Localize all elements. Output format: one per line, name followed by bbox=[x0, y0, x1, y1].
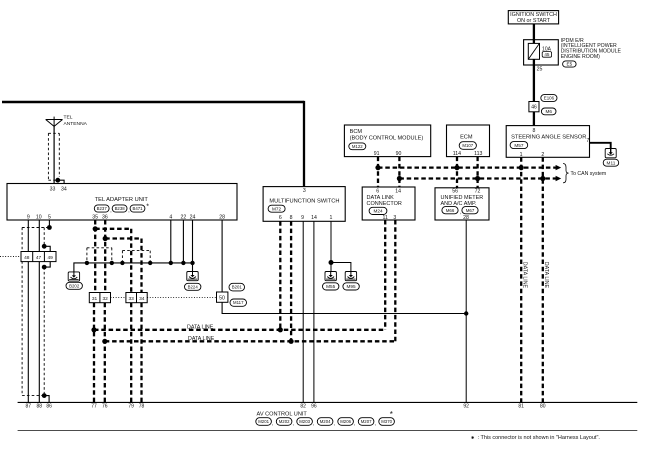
wire upper DATA LINE bbox=[94, 329, 385, 331]
wire connector 32 to AV pin 76 bbox=[104, 303, 106, 403]
svg-text:9: 9 bbox=[27, 215, 30, 221]
junction CAN dots bbox=[375, 165, 380, 170]
svg-text:B471: B471 bbox=[132, 206, 143, 211]
wire DLC pin 11 to upper data line bbox=[384, 220, 386, 330]
svg-text:14: 14 bbox=[395, 188, 401, 194]
svg-text:DATA LINE: DATA LINE bbox=[188, 336, 215, 342]
connector E5 bbox=[563, 61, 577, 67]
wire connector 50 to unified meter line bbox=[222, 302, 466, 313]
wire connector 46 to steering angle sensor pin 8 bbox=[533, 112, 535, 126]
svg-text:M24: M24 bbox=[373, 209, 383, 214]
connectors AV control unit bbox=[256, 418, 272, 426]
junction upper data line dots bbox=[91, 327, 96, 332]
node unified meter and A/C amp bbox=[435, 188, 489, 220]
junction dot below connector 49 bbox=[42, 265, 47, 270]
svg-text:,: , bbox=[334, 421, 335, 427]
svg-text:M122: M122 bbox=[352, 144, 363, 149]
shield around 33/34 wires bbox=[122, 250, 150, 252]
svg-text:25: 25 bbox=[537, 67, 543, 73]
junction lower data line dots bbox=[102, 339, 107, 344]
wire dotted lead to connector 48 bbox=[0, 256, 21, 258]
label to CAN system brace bbox=[563, 164, 569, 183]
svg-text:ANTENNA: ANTENNA bbox=[64, 121, 88, 127]
wire connector 34 to AV pin 78 bbox=[140, 303, 142, 403]
svg-text:M202: M202 bbox=[279, 419, 290, 424]
wire TEL pin 24 drop to ground bbox=[192, 220, 194, 272]
node BCM body control module bbox=[344, 125, 430, 157]
svg-text:,: , bbox=[460, 210, 461, 216]
wire fuse to connector 46 bbox=[533, 65, 535, 102]
svg-text:1: 1 bbox=[330, 215, 333, 221]
svg-text:79: 79 bbox=[128, 404, 134, 410]
node ECM bbox=[447, 125, 490, 157]
svg-text:DATA LINE: DATA LINE bbox=[187, 324, 214, 330]
junction pin 35 branch dot bbox=[93, 226, 98, 231]
svg-text:M370: M370 bbox=[381, 419, 392, 424]
svg-text:36: 36 bbox=[102, 215, 108, 221]
ground M55 bbox=[325, 272, 336, 281]
shield around antenna wire bbox=[47, 133, 49, 180]
svg-text:47: 47 bbox=[36, 255, 42, 261]
svg-text:11: 11 bbox=[383, 215, 388, 221]
svg-text:72: 72 bbox=[475, 188, 481, 194]
svg-text:B237: B237 bbox=[97, 206, 108, 211]
svg-text:4: 4 bbox=[169, 215, 172, 221]
wire TEL pin 4 drop to bus bbox=[170, 220, 172, 263]
node multifunction switch M72 bbox=[263, 187, 345, 222]
wire BCM pin 90 drop bbox=[398, 157, 400, 187]
wire connector 33 to AV pin 79 bbox=[130, 303, 132, 403]
wire ignition switch to fuse bbox=[533, 24, 535, 40]
svg-text:: This connector is not shown: : This connector is not shown in "Harnes… bbox=[478, 435, 601, 441]
ground B224 bbox=[187, 272, 198, 281]
wire TEL pin 22 drop to bus bbox=[182, 220, 184, 263]
node AV control unit line bbox=[18, 401, 638, 403]
svg-text:87: 87 bbox=[26, 404, 32, 410]
ground B202 bbox=[68, 272, 79, 281]
svg-text:M67: M67 bbox=[466, 208, 475, 213]
svg-text:MULTIFUNCTION SWITCH: MULTIFUNCTION SWITCH bbox=[269, 198, 339, 204]
junction dot 50-line tee bbox=[464, 311, 468, 315]
svg-text:80: 80 bbox=[540, 404, 546, 410]
svg-text:24: 24 bbox=[190, 215, 196, 221]
wire TEL pin 28 to connector 50 bbox=[221, 220, 223, 292]
svg-text:B201: B201 bbox=[232, 285, 243, 290]
separator line bottom bbox=[18, 429, 638, 431]
svg-text:78: 78 bbox=[139, 404, 145, 410]
wire pin 35 branch to connector 33 bbox=[95, 228, 131, 230]
svg-text:DATA LINE: DATA LINE bbox=[543, 262, 549, 289]
connector M117 bbox=[230, 299, 247, 306]
svg-text:81: 81 bbox=[518, 404, 524, 410]
junction pin 36 branch dot bbox=[103, 236, 108, 241]
svg-text:,: , bbox=[272, 421, 273, 427]
svg-text:28: 28 bbox=[463, 215, 469, 221]
svg-text:3: 3 bbox=[303, 188, 306, 194]
wire MFS pin 9 to AV pin 82 bbox=[302, 221, 304, 402]
svg-text:STEERING ANGLE SENSOR: STEERING ANGLE SENSOR bbox=[511, 135, 586, 141]
wire MFS pin 6 to upper data line bbox=[279, 221, 281, 329]
wire ECM pin 114 drop bbox=[456, 157, 458, 188]
node ignition switch ON or START bbox=[508, 11, 558, 24]
svg-text:56: 56 bbox=[452, 188, 458, 194]
wire elbow below connector 49 bbox=[44, 262, 50, 268]
wire unified meter pin 28 to AV pin 92 bbox=[465, 220, 467, 402]
svg-text:10: 10 bbox=[36, 215, 42, 221]
connector B201 bbox=[229, 283, 245, 291]
svg-text:CONNECTOR: CONNECTOR bbox=[367, 201, 402, 207]
wire connector 31 to AV pin 77 bbox=[93, 303, 95, 403]
svg-text:45: 45 bbox=[544, 52, 550, 57]
svg-text:35: 35 bbox=[92, 215, 98, 221]
svg-text:E5: E5 bbox=[566, 62, 572, 67]
node TEL adapter unit bbox=[7, 184, 237, 221]
svg-text:M11: M11 bbox=[607, 160, 616, 165]
connector E106 bbox=[541, 95, 557, 102]
wire MFS pin 1 to grounds bbox=[330, 221, 332, 271]
svg-text:6: 6 bbox=[279, 215, 282, 221]
svg-text:ECM: ECM bbox=[460, 134, 473, 140]
wire BCM pin 91 drop bbox=[377, 157, 379, 187]
svg-text:7: 7 bbox=[586, 138, 589, 144]
svg-text:,: , bbox=[293, 421, 294, 427]
svg-text:33: 33 bbox=[50, 187, 56, 193]
svg-text:3: 3 bbox=[393, 215, 396, 221]
svg-text:34: 34 bbox=[139, 296, 145, 302]
svg-text:96: 96 bbox=[311, 404, 317, 410]
svg-text:(BODY CONTROL MODULE): (BODY CONTROL MODULE) bbox=[350, 136, 424, 142]
wire antenna mast to pin 33 bbox=[53, 126, 55, 183]
wire MFS pin 14 to AV pin 96 bbox=[313, 221, 315, 402]
wire TEL pin 10 to AV pin 88 bbox=[38, 220, 40, 402]
wire lower DATA LINE bbox=[105, 340, 396, 342]
svg-text:33: 33 bbox=[129, 296, 135, 302]
svg-text:✱: ✱ bbox=[471, 435, 475, 440]
junction dot above connector 49 bbox=[42, 244, 47, 249]
svg-text:E106: E106 bbox=[544, 96, 555, 101]
svg-text:B224: B224 bbox=[188, 284, 199, 289]
connector 31 32 box bbox=[89, 293, 110, 303]
svg-text:1: 1 bbox=[520, 152, 523, 158]
svg-text:M57: M57 bbox=[514, 143, 524, 148]
svg-text:M72: M72 bbox=[272, 206, 282, 211]
svg-text:AV CONTROL UNIT: AV CONTROL UNIT bbox=[257, 411, 308, 417]
svg-text:2: 2 bbox=[541, 152, 544, 158]
svg-text:*: * bbox=[146, 204, 149, 211]
svg-text:*: * bbox=[390, 410, 393, 419]
svg-text:M95: M95 bbox=[347, 284, 357, 289]
svg-text:M107: M107 bbox=[462, 143, 473, 148]
connector 33 34 box bbox=[126, 293, 147, 303]
connector 46 box bbox=[529, 102, 539, 112]
ground M95 bbox=[345, 272, 356, 281]
wire steering pin 2 drop to AV pin 80 bbox=[542, 157, 544, 402]
wire steering pin 7 to connector M11 bbox=[590, 143, 611, 149]
wire TEL pin 9 to AV pin 87 bbox=[27, 220, 29, 402]
svg-text:M66: M66 bbox=[446, 208, 455, 213]
svg-text:8: 8 bbox=[532, 128, 535, 134]
shield around 31/32 wires bbox=[87, 247, 112, 249]
connector M11 symbol bbox=[605, 149, 616, 158]
svg-text:91: 91 bbox=[374, 151, 380, 157]
svg-text:49: 49 bbox=[48, 255, 54, 261]
wire power feed top line bbox=[2, 101, 304, 104]
svg-text:31: 31 bbox=[92, 296, 98, 302]
junction pin5 shield dot bbox=[47, 225, 52, 230]
svg-text:,: , bbox=[128, 208, 129, 214]
wire TEL pin 36 drop bbox=[104, 220, 106, 293]
junction bottom shield dot bbox=[42, 393, 47, 398]
connector 48 47 49 box bbox=[21, 252, 56, 262]
svg-text:32: 32 bbox=[103, 296, 109, 302]
svg-text:DATA LINE: DATA LINE bbox=[522, 262, 528, 289]
svg-text:To CAN system: To CAN system bbox=[571, 171, 607, 177]
antenna TEL bbox=[46, 119, 63, 121]
svg-text:8: 8 bbox=[290, 215, 293, 221]
wire pin 36 branch to connector 34 bbox=[105, 237, 141, 239]
connector M6 bbox=[541, 108, 556, 115]
svg-text:,: , bbox=[313, 421, 314, 427]
svg-text:B202: B202 bbox=[69, 283, 80, 288]
svg-text:M204: M204 bbox=[320, 419, 331, 424]
junction antenna shield dot bbox=[55, 178, 60, 183]
svg-text:TEL ADAPTER UNIT: TEL ADAPTER UNIT bbox=[95, 197, 149, 203]
svg-text:77: 77 bbox=[91, 404, 97, 410]
wire MFS pin 8 to lower data line bbox=[290, 221, 292, 341]
svg-text:M201: M201 bbox=[258, 419, 269, 424]
wire CAN-L line bbox=[399, 177, 556, 179]
svg-text:,: , bbox=[354, 421, 355, 427]
svg-text:,: , bbox=[375, 421, 376, 427]
svg-text:50: 50 bbox=[219, 296, 225, 302]
wire CAN-H line bbox=[378, 166, 556, 168]
svg-text:46: 46 bbox=[531, 105, 537, 111]
svg-text:M206: M206 bbox=[340, 419, 351, 424]
node data link connector M24 bbox=[362, 187, 415, 220]
svg-text:6: 6 bbox=[376, 188, 379, 194]
svg-text:M117: M117 bbox=[233, 300, 244, 305]
wire DLC pin 3 to lower data line bbox=[394, 220, 396, 341]
svg-text:DATA LINK: DATA LINK bbox=[367, 195, 395, 201]
svg-text:BCM: BCM bbox=[350, 129, 363, 135]
connector M11 label bbox=[603, 159, 619, 166]
shield left group bbox=[22, 227, 49, 229]
svg-text:114: 114 bbox=[453, 151, 461, 157]
svg-text:B238: B238 bbox=[115, 206, 126, 211]
svg-text:M207: M207 bbox=[361, 419, 372, 424]
connector 50 box bbox=[217, 292, 228, 302]
svg-text:5: 5 bbox=[48, 215, 51, 221]
svg-text:UNIFIED METER: UNIFIED METER bbox=[441, 195, 484, 201]
wire elbow into connector 49 bbox=[44, 246, 50, 251]
wire elbow to AV pin 86 bbox=[44, 396, 49, 403]
svg-text:28: 28 bbox=[219, 215, 225, 221]
svg-text:M203: M203 bbox=[299, 419, 310, 424]
svg-text:88: 88 bbox=[37, 404, 43, 410]
svg-text:92: 92 bbox=[463, 404, 469, 410]
wire TEL pin 5 stub bbox=[48, 220, 50, 228]
svg-text:82: 82 bbox=[300, 404, 306, 410]
wire dotted 34 to 50 bbox=[147, 297, 216, 299]
svg-text:90: 90 bbox=[396, 151, 402, 157]
svg-text:48: 48 bbox=[24, 255, 30, 261]
wire shield to pin 34 bbox=[58, 180, 64, 183]
svg-text:TEL: TEL bbox=[64, 115, 73, 121]
node steering angle sensor M57 bbox=[506, 126, 589, 158]
svg-text:ON or START: ON or START bbox=[517, 18, 551, 24]
wire ECM pin 113 drop bbox=[476, 157, 478, 188]
wire shield drop to bottom bbox=[43, 267, 45, 396]
svg-text:,: , bbox=[110, 208, 111, 214]
svg-text:M55: M55 bbox=[326, 284, 336, 289]
fuse 10A 45 IPDM E/R box bbox=[524, 40, 559, 65]
svg-text:9: 9 bbox=[301, 215, 304, 221]
svg-text:86: 86 bbox=[46, 404, 52, 410]
wire dotted 32 to 33 bbox=[111, 297, 126, 299]
wire TEL pin 35 drop bbox=[94, 220, 96, 293]
svg-text:22: 22 bbox=[181, 215, 187, 221]
wire pin5 shield drop upper bbox=[43, 228, 45, 247]
svg-text:113: 113 bbox=[474, 151, 482, 157]
svg-text:34: 34 bbox=[61, 187, 67, 193]
wire steering pin 1 drop to AV pin 81 bbox=[520, 157, 522, 402]
svg-text:14: 14 bbox=[311, 215, 317, 221]
svg-text:76: 76 bbox=[102, 404, 108, 410]
junction bus dots bbox=[85, 261, 89, 265]
wire shield ground bus bbox=[74, 263, 193, 272]
svg-text:ENGINE ROOM): ENGINE ROOM) bbox=[561, 54, 600, 60]
svg-text:M6: M6 bbox=[545, 109, 552, 114]
